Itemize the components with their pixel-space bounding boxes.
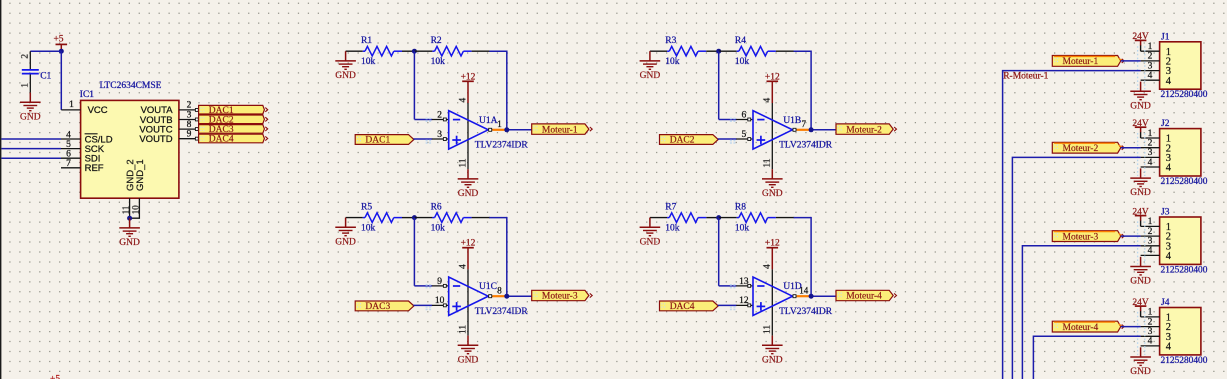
svg-text:U1B: U1B (783, 116, 801, 126)
svg-text:TLV2374IDR: TLV2374IDR (779, 307, 833, 317)
wire pin 3 net (1033, 336, 1140, 379)
svg-text:GND: GND (119, 238, 140, 248)
wire +12 stem (771, 248, 773, 270)
pin 3 of J4 (1141, 335, 1160, 337)
wire junction down to inverting input (718, 218, 720, 286)
wire R3 to junction (706, 50, 718, 52)
ground (IC1) (119, 218, 140, 248)
compile mask dashes (1138, 133, 1145, 176)
pin 11 GND_2 (129, 198, 131, 218)
wire junction to R8 (719, 217, 737, 219)
svg-text:4: 4 (763, 264, 773, 269)
wire pin1 to 24V (1140, 45, 1142, 51)
svg-text:2125280400: 2125280400 (1161, 356, 1208, 366)
svg-text:+5: +5 (53, 35, 63, 45)
wire Moteur-1 to pin 2 (1121, 60, 1141, 62)
pin 1 (output) (488, 129, 492, 131)
svg-text:2: 2 (187, 101, 192, 111)
wire R8 to feedback corner (776, 217, 794, 219)
svg-text:1: 1 (1148, 308, 1153, 318)
port DAC2 (660, 135, 719, 146)
svg-text:+12: +12 (461, 239, 476, 249)
compile mask dashes (1138, 221, 1145, 264)
svg-text:10k: 10k (735, 57, 750, 67)
svg-text:GND: GND (640, 237, 661, 247)
svg-text:10k: 10k (361, 223, 376, 233)
svg-text:4: 4 (1166, 76, 1172, 87)
port Moteur-1 (532, 124, 593, 135)
svg-text:Moteur-3: Moteur-3 (542, 292, 578, 302)
pin 8 (output) (488, 295, 492, 297)
pin 2 of J3 (1141, 235, 1160, 237)
svg-text:3: 3 (437, 130, 442, 140)
svg-text:4: 4 (1166, 163, 1172, 174)
svg-text:4: 4 (1148, 158, 1153, 168)
wire Moteur-3 to pin 2 (1121, 235, 1141, 237)
connector J2 body (1160, 129, 1201, 176)
port Moteur-4 (at J4) (1052, 321, 1124, 333)
svg-text:+12: +12 (765, 72, 780, 82)
svg-text:GND: GND (762, 189, 783, 199)
svg-text:TLV2374IDR: TLV2374IDR (475, 307, 529, 317)
ground (J1) (1130, 82, 1151, 112)
wire SPI bus SDI (1, 157, 61, 159)
pin 2 (inverting input) (432, 119, 449, 121)
svg-text:GND: GND (335, 71, 356, 81)
svg-text:8: 8 (497, 286, 502, 296)
power 24V (J3) (1132, 207, 1149, 217)
wire +12 stem (467, 81, 469, 103)
pin 5 (non-inverting input) (736, 138, 753, 140)
pin 6 SDI (61, 157, 81, 159)
connector J4 body (1160, 308, 1201, 355)
pin 4 of J4 (1141, 345, 1160, 347)
ground (J4) (1130, 347, 1151, 377)
port Moteur-1 (at J1) (1052, 56, 1124, 68)
svg-text:IC1: IC1 (80, 90, 95, 100)
svg-text:J3: J3 (1161, 208, 1170, 218)
pin 2 of J1 (1141, 60, 1160, 62)
wire pin 3 net (1003, 71, 1141, 379)
svg-text:Moteur-1: Moteur-1 (1063, 57, 1099, 67)
pin 8 VOUTC (179, 128, 199, 130)
wire output (orange segment) (492, 129, 504, 131)
pin 9 (inverting input) (432, 285, 449, 287)
svg-text:12: 12 (739, 296, 749, 306)
wire output to port (505, 129, 532, 131)
resistor R6 (432, 213, 471, 223)
junction output U1A (504, 127, 509, 132)
wire output to port (505, 295, 532, 297)
port DAC4 (IC output) (199, 134, 268, 145)
pin 4 / pin 11 vertical (V+ top, V- bottom) (771, 269, 773, 335)
svg-text:DAC4: DAC4 (670, 302, 695, 312)
junction IC ground (127, 216, 132, 221)
wire junction to R2 (414, 50, 432, 52)
port Moteur-2 (at J2) (1052, 142, 1124, 154)
svg-text:6: 6 (66, 150, 71, 160)
wire GND to R1 (346, 50, 363, 52)
port DAC1 (355, 135, 414, 146)
svg-text:10k: 10k (361, 57, 376, 67)
wire pin1 to 24V (1140, 132, 1142, 138)
junction node (R7/R8) (716, 215, 721, 220)
wire Moteur-2 to pin 2 (1121, 147, 1141, 149)
svg-text:4: 4 (66, 130, 71, 140)
svg-text:24V: 24V (1132, 207, 1149, 217)
pin 7 REF (61, 167, 81, 169)
svg-text:14: 14 (799, 286, 809, 296)
svg-text:Moteur-2: Moteur-2 (846, 125, 882, 135)
pin 1 of J2 (1141, 137, 1160, 139)
svg-text:3: 3 (1148, 61, 1153, 71)
pin 9 VOUTD (179, 138, 199, 140)
port Moteur-3 (532, 290, 593, 301)
pin 10 (non-inverting input) (432, 304, 449, 306)
svg-text:7: 7 (802, 119, 807, 129)
wire +5 to C1 (30, 50, 61, 52)
svg-text:5: 5 (742, 130, 747, 140)
svg-text:24V: 24V (1132, 119, 1149, 129)
resistor R2 (432, 46, 471, 56)
compile mask dashes (1138, 312, 1145, 355)
pin 1 of J3 (1141, 225, 1160, 227)
pin 7 (output) (793, 129, 797, 131)
junction node (R1/R2) (412, 49, 417, 54)
pin 2 VOUTA (179, 109, 199, 111)
wire GND to R3 (650, 50, 667, 52)
svg-text:C1: C1 (40, 71, 51, 81)
svg-text:R5: R5 (361, 203, 372, 213)
svg-text:2: 2 (437, 110, 442, 120)
svg-text:U1C: U1C (479, 282, 497, 292)
op-amp U1C (449, 277, 489, 316)
svg-text:R6: R6 (431, 203, 442, 213)
wire feedback vertical (506, 51, 508, 130)
svg-text:10k: 10k (431, 223, 446, 233)
resistor R1 (363, 46, 402, 56)
pin 14 (output) (793, 295, 797, 297)
svg-text:1: 1 (1148, 42, 1153, 52)
svg-text:DAC3: DAC3 (365, 302, 390, 312)
svg-text:2: 2 (1148, 227, 1153, 237)
ground (at R5) (335, 218, 356, 248)
svg-text:4: 4 (458, 98, 468, 103)
svg-text:Moteur-2: Moteur-2 (1063, 144, 1099, 154)
svg-text:DAC4: DAC4 (209, 135, 234, 145)
port Moteur-4 (836, 290, 897, 301)
wire R7 to junction (706, 217, 718, 219)
pin 2 of J4 (1141, 326, 1160, 328)
compile mask dashes (1138, 46, 1145, 89)
pin 4 of J1 (1141, 79, 1160, 81)
ground (U1A V-) (458, 169, 479, 199)
svg-text:7: 7 (66, 159, 71, 169)
wire Moteur-4 to pin 2 (1121, 326, 1141, 328)
svg-text:2: 2 (1148, 139, 1153, 149)
svg-text:10: 10 (435, 296, 445, 306)
svg-text:11: 11 (763, 158, 773, 167)
svg-text:2: 2 (1148, 52, 1153, 62)
wire output to port (809, 295, 836, 297)
connector J3 body (1160, 217, 1201, 264)
svg-text:2125280400: 2125280400 (1161, 177, 1208, 187)
pin 3 of J1 (1141, 70, 1160, 72)
svg-text:R8: R8 (735, 203, 746, 213)
wire pin1 to 24V (1140, 220, 1142, 226)
svg-text:Moteur-1: Moteur-1 (542, 125, 578, 135)
svg-text:3: 3 (1148, 148, 1153, 158)
svg-text:DAC2: DAC2 (670, 136, 695, 146)
svg-text:4: 4 (1166, 342, 1172, 353)
svg-text:VCC: VCC (88, 105, 108, 116)
wire SPI bus SCK (1, 148, 61, 150)
wire R5 to junction (402, 217, 414, 219)
wire +12 stem (467, 248, 469, 270)
svg-text:GND: GND (458, 189, 479, 199)
svg-text:GND: GND (1130, 277, 1151, 287)
pin 1 VCC (61, 109, 80, 111)
power +12 (U1C) (461, 239, 476, 249)
svg-text:6: 6 (742, 110, 747, 120)
svg-text:VOUTD: VOUTD (139, 134, 172, 145)
svg-text:Moteur-3: Moteur-3 (1063, 232, 1099, 242)
svg-text:4: 4 (1166, 251, 1172, 262)
pin 4 of J2 (1141, 166, 1160, 168)
svg-text:GND: GND (1130, 367, 1151, 377)
port Moteur-3 (at J3) (1052, 231, 1124, 243)
wire R1 to junction (402, 50, 414, 52)
capacitor C1 (21, 51, 39, 92)
ground (J2) (1130, 168, 1151, 198)
resistor R7 (667, 213, 706, 223)
wire junction down to inverting input (718, 51, 720, 119)
svg-text:GND: GND (762, 355, 783, 365)
port DAC3 (IC output) (199, 125, 268, 136)
svg-text:3: 3 (1148, 237, 1153, 247)
wire DAC2 to non-inverting input (718, 138, 737, 140)
svg-text:11: 11 (458, 325, 468, 334)
svg-text:R1: R1 (361, 36, 372, 46)
pin 4 CS/LD (61, 138, 81, 140)
port DAC2 (IC output) (199, 115, 268, 126)
wire feedback vertical (810, 51, 812, 130)
svg-text:4: 4 (458, 264, 468, 269)
wire junction down to inverting input (413, 51, 415, 119)
wire pin 3 net (1012, 157, 1140, 379)
svg-text:2: 2 (1148, 317, 1153, 327)
svg-text:8: 8 (187, 120, 192, 130)
wire R6 to feedback corner (472, 217, 490, 219)
wire junction to R4 (719, 50, 737, 52)
pin 1 of J1 (1141, 50, 1160, 52)
svg-text:DAC1: DAC1 (365, 136, 390, 146)
wire SPI bus CS/LD (1, 138, 61, 140)
resistor R8 (737, 213, 776, 223)
junction output U1D (809, 294, 814, 299)
svg-text:GND: GND (20, 112, 41, 122)
svg-text:R2: R2 (431, 36, 442, 46)
pin 1 of J4 (1141, 316, 1160, 318)
svg-text:4: 4 (1148, 337, 1153, 347)
pin 3 of J2 (1141, 156, 1160, 158)
svg-text:3: 3 (187, 110, 192, 120)
pin 13 (inverting input) (736, 285, 753, 287)
wire pin 3 net (1022, 246, 1140, 379)
junction output U1C (504, 294, 509, 299)
svg-text:10k: 10k (665, 57, 680, 67)
wire DAC4 to non-inverting input (718, 304, 737, 306)
svg-text:R7: R7 (665, 203, 676, 213)
pin 3 of J3 (1141, 245, 1160, 247)
svg-text:GND: GND (1130, 188, 1151, 198)
ground (U1C V-) (458, 336, 479, 366)
port Moteur-2 (836, 124, 897, 135)
wire output (orange segment) (492, 295, 504, 297)
svg-text:1: 1 (1148, 129, 1153, 139)
power +12 (U1A) (461, 72, 476, 82)
svg-text:1: 1 (69, 100, 74, 110)
power 24V (J2) (1132, 119, 1149, 129)
svg-text:24V: 24V (1132, 32, 1149, 42)
op-amp U1D (753, 277, 793, 316)
junction +5 node (59, 49, 64, 54)
op-amp U1A (449, 111, 489, 150)
svg-text:4: 4 (763, 98, 773, 103)
wire +12 stem (771, 81, 773, 103)
ground (U1B V-) (762, 169, 783, 199)
op-amp U1B (753, 111, 793, 150)
wire R2 to feedback corner (472, 50, 490, 52)
svg-text:10: 10 (131, 205, 141, 215)
port DAC4 (660, 301, 719, 312)
svg-text:5: 5 (66, 140, 71, 150)
svg-text:4: 4 (1148, 71, 1153, 81)
svg-text:+12: +12 (765, 239, 780, 249)
svg-text:REF: REF (85, 163, 104, 174)
IC IC1 body (81, 100, 179, 198)
overline on CS (85, 133, 98, 135)
wire output (orange segment) (797, 129, 809, 131)
pin 5 SCK (61, 148, 81, 150)
svg-text:+5: +5 (50, 375, 60, 379)
svg-text:10k: 10k (665, 223, 680, 233)
svg-text:2: 2 (21, 54, 31, 59)
pin 4 of J3 (1141, 254, 1160, 256)
resistor R5 (363, 213, 402, 223)
wire output to port (809, 129, 836, 131)
port DAC3 (355, 301, 414, 312)
ground (J3) (1130, 257, 1151, 287)
svg-text:10k: 10k (735, 223, 750, 233)
svg-text:GND: GND (458, 355, 479, 365)
svg-text:1: 1 (1148, 217, 1153, 227)
wire output (orange segment) (797, 295, 809, 297)
ground (at R7) (640, 218, 661, 248)
port DAC1 (IC output) (199, 105, 268, 116)
svg-text:Moteur-4: Moteur-4 (1063, 323, 1099, 333)
ground (at R1) (335, 51, 356, 81)
svg-text:+12: +12 (461, 72, 476, 82)
svg-text:U1A: U1A (479, 116, 498, 126)
svg-text:J2: J2 (1161, 119, 1170, 129)
power 24V (J4) (1132, 298, 1149, 308)
svg-text:1: 1 (497, 119, 502, 129)
svg-text:R4: R4 (735, 36, 746, 46)
svg-text:11: 11 (763, 325, 773, 334)
svg-text:LTC2634CMSE: LTC2634CMSE (100, 81, 162, 91)
ground (U1D V-) (762, 336, 783, 366)
svg-text:R3: R3 (665, 36, 676, 46)
connector J1 body (1160, 42, 1201, 89)
svg-text:Moteur-4: Moteur-4 (846, 292, 882, 302)
junction node (R3/R4) (716, 49, 721, 54)
wire R4 to feedback corner (776, 50, 794, 52)
svg-text:9: 9 (187, 130, 192, 140)
wire junction down to inverting input (413, 218, 415, 286)
svg-text:GND: GND (1130, 101, 1151, 111)
power +12 (U1D) (765, 239, 780, 249)
svg-text:GND_1: GND_1 (135, 159, 146, 191)
pin 6 (inverting input) (736, 119, 753, 121)
svg-text:4: 4 (1148, 246, 1153, 256)
svg-text:11: 11 (121, 206, 131, 215)
svg-text:10k: 10k (431, 57, 446, 67)
wire DAC3 to non-inverting input (413, 304, 432, 306)
wire feedback vertical (810, 217, 812, 296)
ground (C1) (20, 93, 41, 123)
svg-text:1: 1 (21, 83, 31, 88)
wire junction to R6 (414, 217, 432, 219)
svg-text:2125280400: 2125280400 (1161, 265, 1208, 275)
svg-text:TLV2374IDR: TLV2374IDR (779, 141, 833, 151)
svg-text:TLV2374IDR: TLV2374IDR (475, 141, 529, 151)
power +12 (U1B) (765, 72, 780, 82)
pin 4 / pin 11 vertical (V+ top, V- bottom) (467, 103, 469, 169)
svg-text:GND: GND (640, 71, 661, 81)
pin 3 VOUTB (179, 119, 199, 121)
wire +5 down to VCC (60, 51, 62, 110)
pin 4 / pin 11 vertical (V+ top, V- bottom) (771, 103, 773, 169)
svg-text:GND: GND (335, 237, 356, 247)
ground (at R3) (640, 51, 661, 81)
wire GND to R5 (346, 217, 363, 219)
pin 12 (non-inverting input) (736, 304, 753, 306)
svg-text:13: 13 (739, 277, 749, 287)
svg-text:9: 9 (437, 277, 442, 287)
svg-text:2125280400: 2125280400 (1161, 90, 1208, 100)
wire pin1 to 24V (1140, 311, 1142, 317)
svg-text:R-Moteur-1: R-Moteur-1 (1003, 72, 1048, 82)
svg-text:3: 3 (1148, 327, 1153, 337)
wire GND to R7 (650, 217, 667, 219)
junction output U1B (809, 127, 814, 132)
wire feedback vertical (506, 217, 508, 296)
pin 2 of J2 (1141, 147, 1160, 149)
pin 3 (non-inverting input) (432, 138, 449, 140)
svg-text:J1: J1 (1161, 32, 1170, 42)
svg-text:24V: 24V (1132, 298, 1149, 308)
resistor R3 (667, 46, 706, 56)
power +5 (53, 35, 67, 52)
junction node (R5/R6) (412, 215, 417, 220)
svg-text:J4: J4 (1161, 298, 1170, 308)
svg-text:11: 11 (458, 158, 468, 167)
resistor R4 (737, 46, 776, 56)
pin 10 GND_1 (130, 198, 140, 218)
pin 4 / pin 11 vertical (V+ top, V- bottom) (467, 269, 469, 335)
wire DAC1 to non-inverting input (413, 138, 432, 140)
